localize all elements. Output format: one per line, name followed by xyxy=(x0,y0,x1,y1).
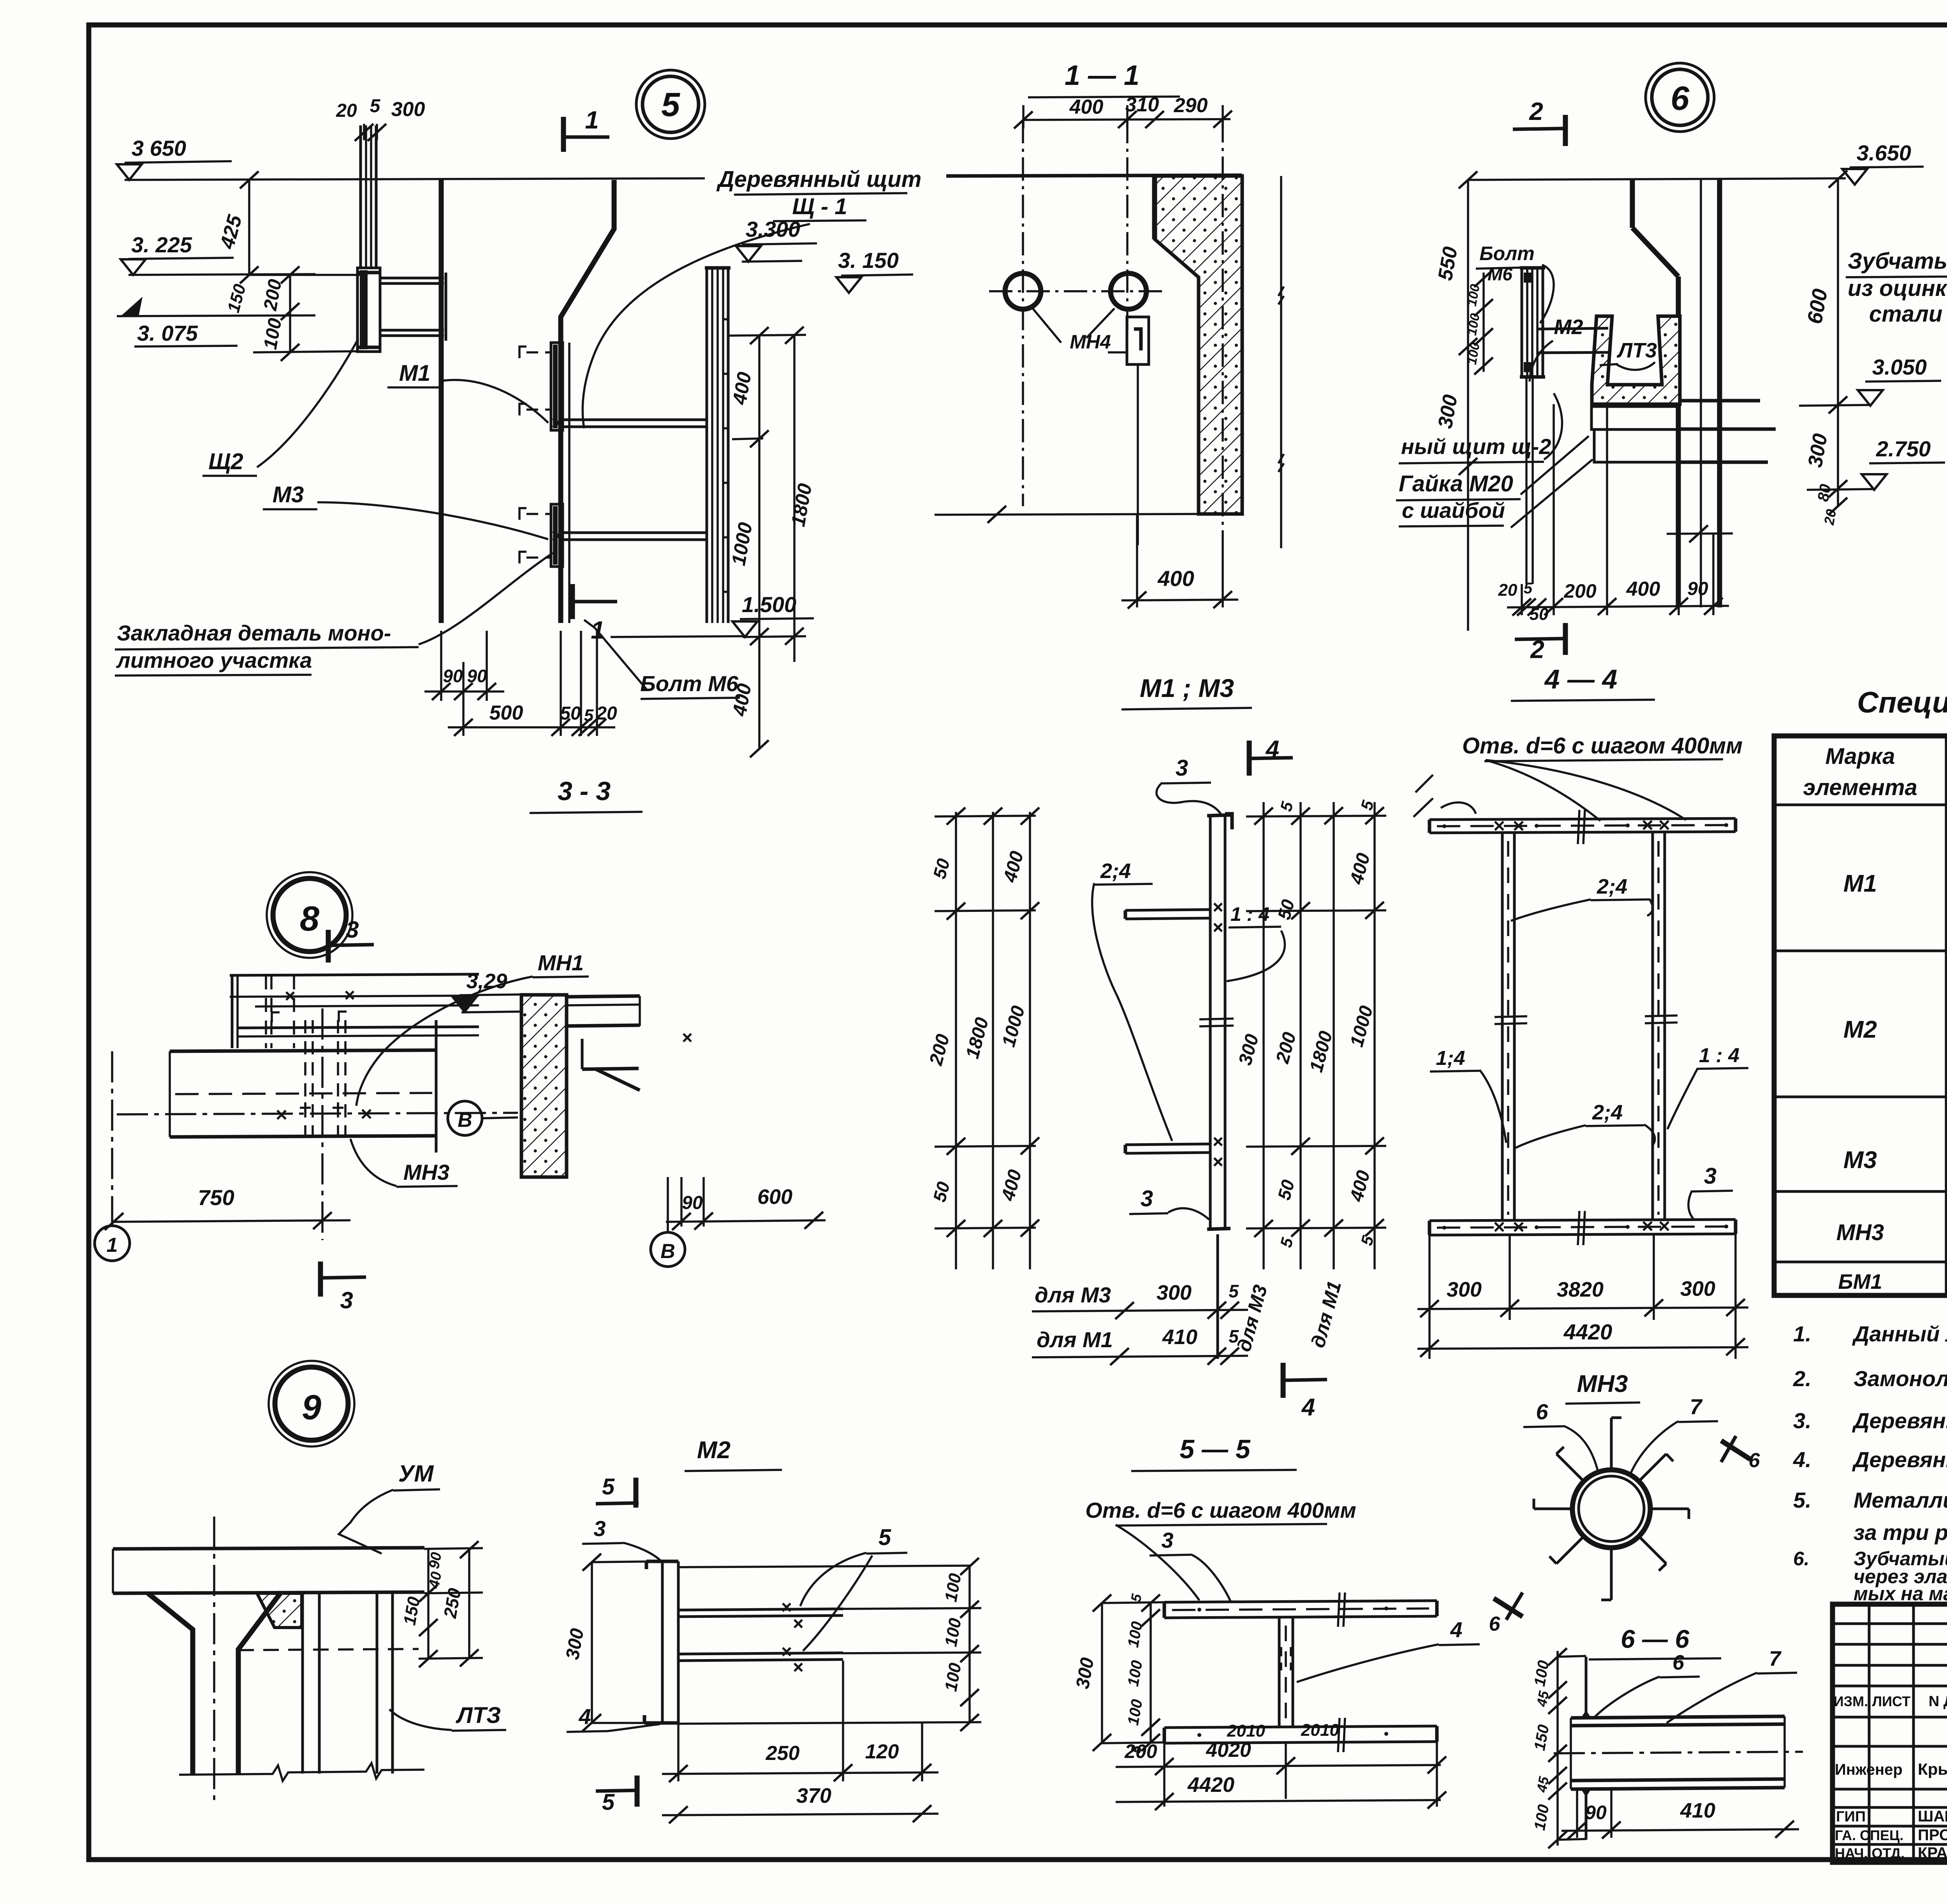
svg-text:Щ2: Щ2 xyxy=(208,449,243,474)
floor lines right of pier xyxy=(1679,399,1760,403)
detail 5 circle xyxy=(636,70,705,139)
pier inner line xyxy=(1700,180,1702,607)
M1 I-beam arm xyxy=(563,419,707,421)
M1M3 bottom shank xyxy=(1216,1234,1219,1359)
UM dims right xyxy=(427,1549,430,1659)
svg-text:3.650: 3.650 xyxy=(1857,141,1911,165)
hatched wall band xyxy=(1155,176,1242,514)
svg-text:УМ: УМ xyxy=(398,1461,435,1487)
svg-text:45: 45 xyxy=(1533,1775,1552,1794)
svg-text:200: 200 xyxy=(1563,580,1597,602)
svg-text:Болт М6: Болт М6 xyxy=(640,671,739,696)
svg-text:Отв. d=6 с шагом 400мм: Отв. d=6 с шагом 400мм xyxy=(1462,733,1743,758)
svg-text:2;4: 2;4 xyxy=(1597,875,1627,898)
svg-text:5: 5 xyxy=(661,86,680,123)
svg-text:90: 90 xyxy=(443,666,463,686)
svg-text:МН1: МН1 xyxy=(538,950,584,975)
svg-text:6: 6 xyxy=(1671,80,1690,117)
svg-text:20: 20 xyxy=(1821,508,1840,527)
board stack right Щ-1 xyxy=(706,269,708,623)
svg-text:N ДОКУМ.: N ДОКУМ. xyxy=(1929,1693,1947,1710)
svg-text:1.: 1. xyxy=(1793,1322,1811,1346)
svg-text:ный щит щ-2: ный щит щ-2 xyxy=(1401,434,1551,459)
svg-text:МН3: МН3 xyxy=(1577,1371,1628,1397)
title block frame xyxy=(1833,1604,1947,1862)
svg-text:20: 20 xyxy=(336,100,357,121)
svg-text:2.: 2. xyxy=(1793,1366,1811,1391)
svg-text:5: 5 xyxy=(602,1790,615,1815)
svg-text:1: 1 xyxy=(107,1234,118,1256)
4-4 bottom rail xyxy=(1429,1219,1736,1221)
M2 dims right xyxy=(678,1566,970,1567)
svg-text:4: 4 xyxy=(1450,1617,1462,1642)
MN3 spokes xyxy=(1652,1508,1689,1510)
detail 6 circle xyxy=(1646,63,1714,132)
svg-text:для М3: для М3 xyxy=(1035,1283,1111,1307)
svg-text:3: 3 xyxy=(1161,1528,1173,1552)
3-3 right wall hatched xyxy=(521,995,567,1177)
svg-text:ШАПИРО: ШАПИРО xyxy=(1918,1808,1947,1825)
svg-text:2;4: 2;4 xyxy=(1592,1101,1623,1124)
4-4 bottom dims xyxy=(1428,1235,1431,1359)
M1M3 splice mark xyxy=(1199,1019,1234,1019)
detail circle 8 xyxy=(267,872,352,958)
svg-text:300: 300 xyxy=(1447,1278,1482,1301)
svg-text:МН3: МН3 xyxy=(403,1160,449,1184)
svg-text:6: 6 xyxy=(1536,1399,1548,1424)
svg-text:с шайбой: с шайбой xyxy=(1402,498,1505,523)
svg-text:НАЧ. ОТД.: НАЧ. ОТД. xyxy=(1835,1845,1905,1861)
6-6 anchor verticals xyxy=(1585,1657,1588,1718)
M2 dim 300 left xyxy=(591,1561,593,1723)
svg-text:3: 3 xyxy=(346,917,359,943)
UM hatched wedge xyxy=(257,1593,302,1628)
4-4 posts xyxy=(1501,833,1504,1221)
table thin row lines xyxy=(1946,840,1947,842)
svg-text:90: 90 xyxy=(682,1193,703,1213)
3-3 lower beam xyxy=(170,1050,436,1051)
dashed anchors upper bracket xyxy=(526,351,551,354)
table column lines xyxy=(1945,736,1947,1295)
3-3 top marker 3 xyxy=(326,930,331,963)
svg-text:Зубчатый водослив: Зубчатый водослив xyxy=(1848,248,1947,274)
right extension line xyxy=(1280,176,1282,548)
svg-text:300: 300 xyxy=(1157,1281,1192,1304)
4-4 post splices xyxy=(1495,1016,1527,1017)
svg-text:4020: 4020 xyxy=(1206,1739,1251,1761)
svg-text:90: 90 xyxy=(1687,579,1708,599)
M1 bracket plate xyxy=(551,343,563,430)
M2 struts xyxy=(678,1609,843,1610)
svg-text:КРАСАВИН: КРАСАВИН xyxy=(1918,1844,1947,1862)
svg-text:3: 3 xyxy=(1176,755,1188,781)
M1M3 left dim chains xyxy=(955,812,957,1269)
svg-text:М1: М1 xyxy=(399,361,431,386)
svg-text:3.: 3. xyxy=(1793,1408,1811,1433)
4-4 top rail xyxy=(1429,818,1736,820)
UM slab xyxy=(113,1548,424,1549)
MN3 marker 6 top-right xyxy=(1721,1441,1750,1459)
svg-text:6: 6 xyxy=(1489,1613,1501,1635)
M1M3 upper arm xyxy=(1125,910,1210,910)
M2 board stack xyxy=(1521,269,1523,377)
spec table outline xyxy=(1774,736,1947,1295)
svg-text:Деревянные щиты разработаны: Деревянные щиты разработаны на листе КЖ-… xyxy=(1852,1447,1947,1472)
circle 1 axis xyxy=(95,1226,130,1261)
svg-text:Замоноличивание торцов лотка: Замоноличивание торцов лотка выполнять б… xyxy=(1854,1366,1947,1391)
svg-text:400: 400 xyxy=(1626,578,1660,600)
svg-text:Металлические марки покрасить: Металлические марки покрасить эмалью ЭП-… xyxy=(1854,1488,1947,1512)
M2 post angle xyxy=(661,1561,664,1723)
bracket plates upper xyxy=(357,268,380,352)
svg-text:1;4: 1;4 xyxy=(1436,1047,1465,1070)
svg-text:М2: М2 xyxy=(697,1437,731,1464)
M2 bottom dims xyxy=(677,1723,680,1781)
svg-text:М3: М3 xyxy=(1843,1147,1877,1174)
lower I-beam arm xyxy=(563,531,707,534)
svg-text:В: В xyxy=(458,1109,472,1131)
svg-text:Болт: Болт xyxy=(1479,243,1535,264)
svg-text:ПРОНИН: ПРОНИН xyxy=(1918,1827,1947,1844)
svg-text:9: 9 xyxy=(302,1388,321,1427)
3-3 bolt group dashed xyxy=(304,1020,306,1137)
svg-text:80: 80 xyxy=(1815,483,1834,503)
svg-text:В: В xyxy=(660,1240,675,1263)
svg-text:6: 6 xyxy=(1749,1449,1760,1472)
svg-text:3: 3 xyxy=(593,1516,606,1541)
svg-text:5 — 5: 5 — 5 xyxy=(1179,1434,1251,1464)
anchor bolts to channel xyxy=(1537,328,1608,329)
6-6 pipe body xyxy=(1571,1716,1785,1718)
UM right leg slant xyxy=(238,1592,281,1774)
svg-text:1 — 1: 1 — 1 xyxy=(1065,60,1139,91)
svg-text:4420: 4420 xyxy=(1187,1773,1234,1797)
4-4 rail splice mark xyxy=(1578,810,1579,844)
pier outline xyxy=(1630,180,1635,228)
svg-text:4 — 4: 4 — 4 xyxy=(1544,664,1618,694)
svg-text:ГА. СПЕЦ.: ГА. СПЕЦ. xyxy=(1835,1827,1903,1843)
UM centerline xyxy=(213,1517,215,1803)
svg-text:1: 1 xyxy=(585,106,599,134)
svg-text:120: 120 xyxy=(865,1740,899,1763)
svg-text:Закладная деталь моно-: Закладная деталь моно- xyxy=(117,621,391,645)
svg-text:370: 370 xyxy=(796,1784,831,1807)
svg-text:3.050: 3.050 xyxy=(1872,355,1927,379)
6-6 left dim chain xyxy=(1556,1651,1559,1846)
svg-text:ЛТ3: ЛТ3 xyxy=(1616,339,1657,362)
wall outline funnel xyxy=(439,180,444,623)
3-3 bottom dims 90 600 xyxy=(680,1177,683,1227)
table block separators xyxy=(1774,950,1947,952)
svg-text:300: 300 xyxy=(1680,1277,1715,1300)
svg-text:за три раза.: за три раза. xyxy=(1854,1520,1947,1545)
svg-text:20: 20 xyxy=(596,703,617,724)
M1M3 right dim chains xyxy=(1262,802,1265,1269)
svg-text:90: 90 xyxy=(467,666,487,686)
title block left grid rows xyxy=(1833,1622,1947,1625)
3-3 upper assembly plan xyxy=(230,974,479,975)
UM break line bottom xyxy=(179,1763,424,1781)
small dims 100x3 xyxy=(1482,273,1485,372)
svg-text:2: 2 xyxy=(1529,97,1543,125)
svg-text:ЛТЗ: ЛТЗ xyxy=(456,1703,501,1728)
svg-text:2010: 2010 xyxy=(1227,1721,1265,1740)
section marker 1 bottom xyxy=(570,584,575,619)
top level line detail6 xyxy=(1468,178,1846,180)
bottom dim detail6 xyxy=(1667,533,1733,534)
svg-text:5: 5 xyxy=(1229,1281,1239,1301)
svg-text:40: 40 xyxy=(426,1570,445,1590)
svg-text:Инженер: Инженер xyxy=(1835,1761,1903,1778)
svg-text:1.500: 1.500 xyxy=(742,592,796,617)
svg-text:элемента: элемента xyxy=(1803,775,1917,800)
svg-text:5: 5 xyxy=(370,96,381,116)
svg-text:2;4: 2;4 xyxy=(1100,859,1131,883)
svg-text:из оцинкованной: из оцинкованной xyxy=(1848,276,1947,301)
svg-text:410: 410 xyxy=(1162,1325,1197,1349)
M1M3 lower arm xyxy=(1125,1144,1210,1145)
svg-text:3: 3 xyxy=(340,1287,353,1313)
svg-text:50: 50 xyxy=(1530,605,1549,624)
right dim chain 600 300 80 20 xyxy=(1837,178,1839,506)
svg-text:литного участка: литного участка xyxy=(116,648,312,672)
svg-text:БМ1: БМ1 xyxy=(1838,1270,1882,1293)
svg-text:400: 400 xyxy=(1069,96,1104,118)
svg-text:200: 200 xyxy=(1124,1740,1157,1762)
svg-text:Крымский: Крымский xyxy=(1918,1760,1947,1778)
svg-text:3. 225: 3. 225 xyxy=(131,232,192,257)
svg-text:2.750: 2.750 xyxy=(1876,436,1931,461)
circle B mid xyxy=(448,1101,482,1135)
3-3 bottom marker 3 xyxy=(318,1262,323,1297)
svg-text:2010: 2010 xyxy=(1301,1721,1339,1740)
circle B bottom xyxy=(651,1232,685,1267)
support slabs under channel xyxy=(1591,406,1677,429)
right dim chain 400 1000 1800 xyxy=(758,335,760,750)
svg-text:400: 400 xyxy=(1157,566,1194,591)
5-5 top rail xyxy=(1164,1601,1437,1602)
svg-text:М2: М2 xyxy=(1554,315,1583,339)
UM bracket plates xyxy=(301,1592,304,1774)
detail circle 9 xyxy=(269,1361,354,1446)
svg-text:Деревянный щит: Деревянный щит xyxy=(716,167,922,192)
svg-text:М1 ; М3: М1 ; М3 xyxy=(1140,674,1234,702)
svg-text:3820: 3820 xyxy=(1557,1278,1604,1301)
svg-text:4: 4 xyxy=(1301,1394,1315,1421)
dim 425 vertical xyxy=(248,180,250,275)
bolt hole circles xyxy=(1005,273,1041,309)
svg-text:3.300: 3.300 xyxy=(746,217,800,241)
svg-text:3: 3 xyxy=(1141,1186,1153,1211)
strut beams upper xyxy=(380,277,444,280)
svg-text:ГИП: ГИП xyxy=(1836,1809,1866,1825)
svg-text:Щ - 1: Щ - 1 xyxy=(792,194,847,219)
svg-text:Отв. d=6 с шагом 400мм: Отв. d=6 с шагом 400мм xyxy=(1085,1498,1356,1522)
LT3 channel hatched xyxy=(1592,316,1680,404)
svg-text:стали δ=0.8мм: стали δ=0.8мм xyxy=(1869,301,1947,327)
svg-text:250: 250 xyxy=(766,1742,800,1765)
svg-text:мых на марке М2 .: мых на марке М2 . xyxy=(1854,1583,1947,1605)
svg-text:45: 45 xyxy=(1533,1689,1552,1709)
svg-text:Деревянные щиты крепить к мет: Деревянные щиты крепить к металлическим … xyxy=(1852,1408,1947,1433)
svg-text:3 650: 3 650 xyxy=(132,136,186,160)
svg-text:3,29: 3,29 xyxy=(466,970,507,993)
svg-text:6: 6 xyxy=(1672,1651,1685,1674)
svg-text:90: 90 xyxy=(426,1551,445,1570)
svg-text:600: 600 xyxy=(757,1185,792,1209)
floor line bottom xyxy=(935,514,1199,515)
section marker 4 bottom xyxy=(1281,1363,1286,1398)
svg-text:Марка: Марка xyxy=(1825,744,1895,769)
svg-text:1 : 4: 1 : 4 xyxy=(1699,1044,1739,1067)
svg-text:4420: 4420 xyxy=(1563,1320,1613,1344)
svg-text:3 - 3: 3 - 3 xyxy=(558,776,611,806)
5-5 mid post dashed xyxy=(1278,1618,1281,1728)
svg-text:300: 300 xyxy=(391,98,425,121)
svg-text:Данный лист см. совместка с: Данный лист см. совместка с листами КЖ-1… xyxy=(1852,1322,1947,1346)
5-5 bottom rail xyxy=(1164,1726,1437,1728)
formwork boards Щ2 top stack xyxy=(359,125,362,269)
svg-text:МН3: МН3 xyxy=(1836,1220,1884,1245)
svg-text:4.: 4. xyxy=(1793,1447,1811,1472)
svg-text:8: 8 xyxy=(300,899,319,938)
svg-text:310: 310 xyxy=(1125,93,1159,116)
UM left leg xyxy=(148,1593,193,1774)
M1M3 column angle post xyxy=(1209,816,1212,1228)
svg-text:ИЗМ.: ИЗМ. xyxy=(1834,1693,1868,1709)
lower embedded plate M3 xyxy=(551,504,563,567)
svg-text:М3: М3 xyxy=(273,482,304,507)
svg-text:5.: 5. xyxy=(1793,1488,1811,1512)
svg-text:410: 410 xyxy=(1680,1799,1715,1822)
table header bottom xyxy=(1774,804,1947,806)
svg-text:7: 7 xyxy=(1769,1647,1782,1670)
svg-text:ЛИСТ: ЛИСТ xyxy=(1872,1693,1910,1709)
svg-text:5: 5 xyxy=(1524,580,1533,597)
section marker 1 top xyxy=(561,117,566,152)
wall left lower face xyxy=(1152,176,1157,239)
svg-text:750: 750 xyxy=(198,1185,234,1210)
dim chain 200 100 xyxy=(289,275,291,352)
svg-text:6 — 6: 6 — 6 xyxy=(1621,1624,1690,1653)
svg-text:Гайка М20: Гайка М20 xyxy=(1399,471,1513,496)
svg-text:М1: М1 xyxy=(1843,870,1877,897)
svg-text:290: 290 xyxy=(1174,94,1208,117)
svg-text:50: 50 xyxy=(560,703,581,724)
wall top line xyxy=(946,175,1242,176)
svg-text:3. 150: 3. 150 xyxy=(838,248,899,273)
svg-text:3. 075: 3. 075 xyxy=(137,321,198,345)
svg-text:Спецификация металла на одн: Спецификация металла на одну марку xyxy=(1857,686,1947,719)
MN3 marker 6 bottom-left xyxy=(1494,1598,1523,1617)
svg-text:М2: М2 xyxy=(1843,1016,1877,1043)
MN3 pipe circle xyxy=(1572,1470,1650,1548)
svg-text:90: 90 xyxy=(1585,1802,1607,1823)
left extension and dim 550 300 xyxy=(1467,180,1469,631)
5-5 left dims xyxy=(1101,1602,1103,1743)
svg-text:5: 5 xyxy=(878,1525,891,1550)
3-3 corbel beam right xyxy=(567,996,640,997)
svg-text:20: 20 xyxy=(1498,581,1517,600)
MN4 plate xyxy=(1127,317,1149,364)
title block left grid verticals xyxy=(1868,1604,1871,1862)
svg-text:500: 500 xyxy=(489,702,523,724)
svg-text:для М1: для М1 xyxy=(1037,1327,1113,1352)
svg-text:7: 7 xyxy=(1690,1394,1703,1419)
svg-text:3: 3 xyxy=(1704,1163,1716,1189)
svg-text:6.: 6. xyxy=(1793,1548,1810,1570)
svg-text:5: 5 xyxy=(602,1474,615,1499)
